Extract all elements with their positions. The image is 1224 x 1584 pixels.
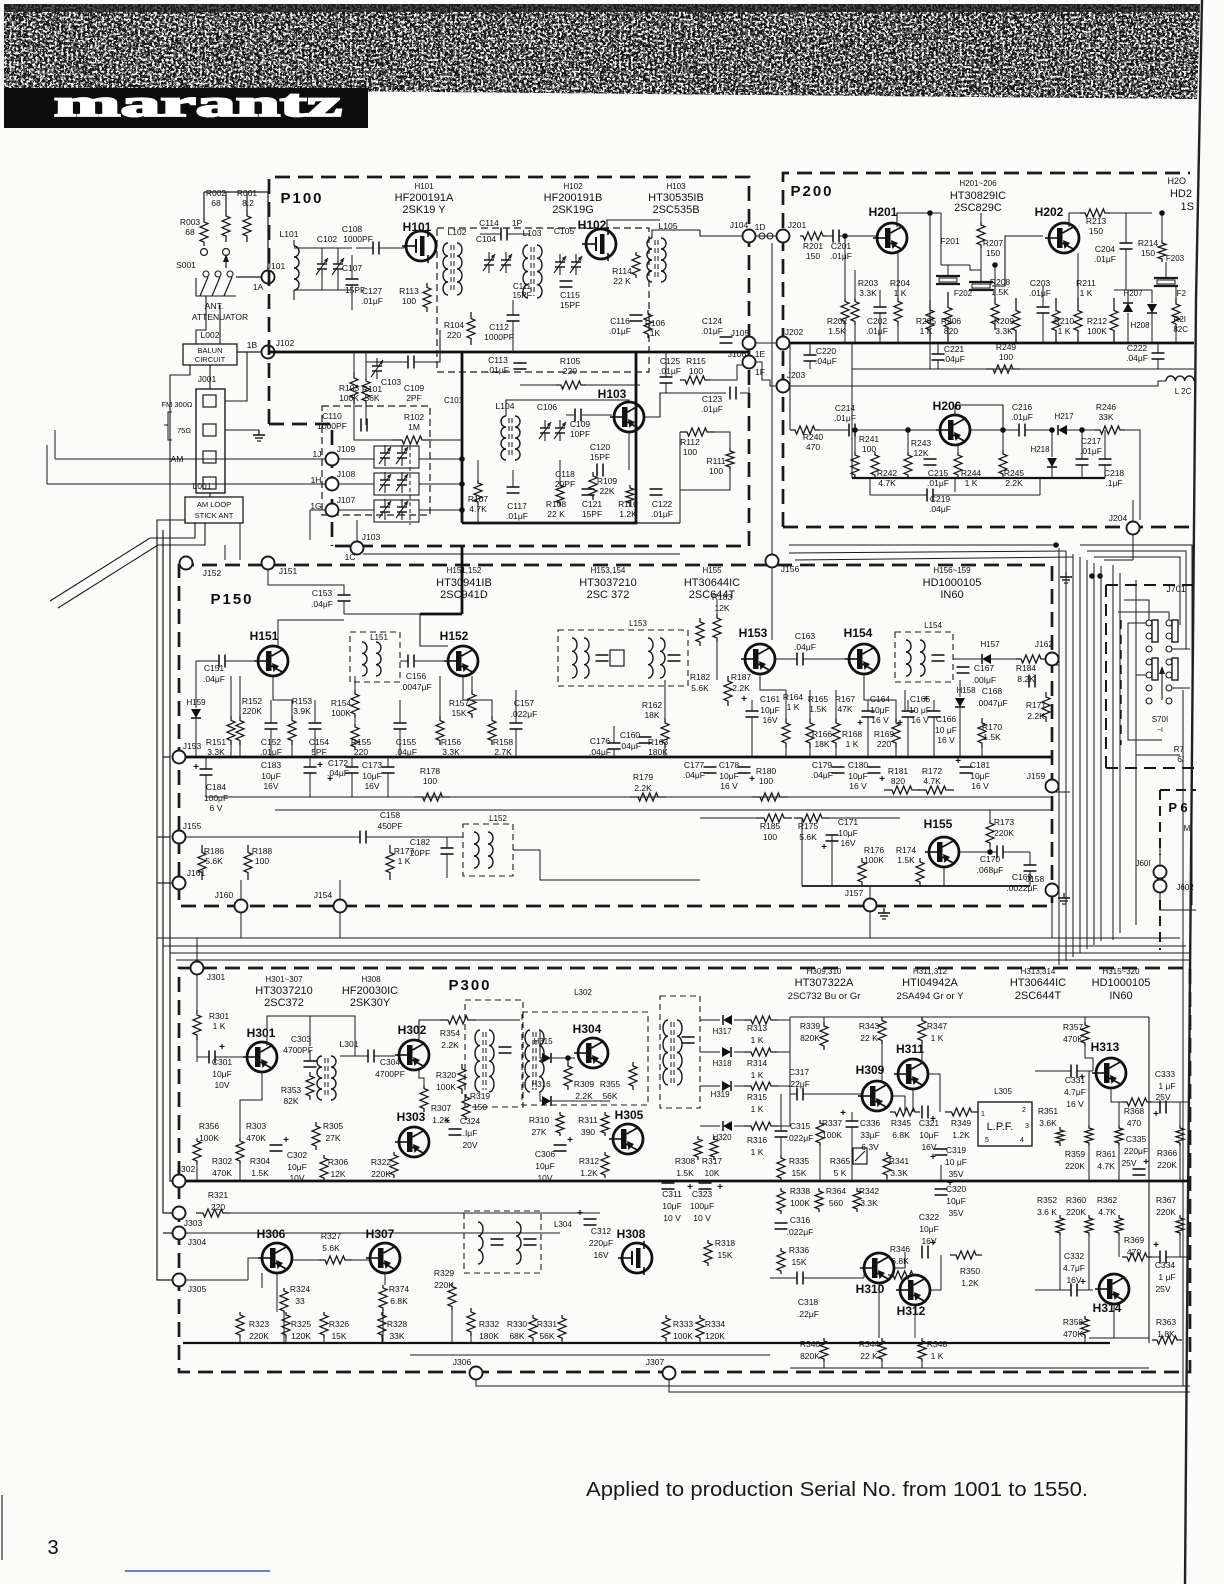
svg-text:F2: F2	[1177, 289, 1187, 298]
svg-text:R329: R329	[434, 1268, 455, 1278]
svg-text:22K: 22K	[599, 486, 614, 496]
svg-text:R175: R175	[798, 821, 819, 831]
inner bundle verticals	[1112, 565, 1114, 940]
svg-text:J108: J108	[337, 469, 356, 479]
right column vertical bundle	[1058, 548, 1060, 965]
svg-text:10μF: 10μF	[535, 1161, 555, 1171]
svg-text:P100: P100	[280, 190, 323, 207]
svg-text:16V: 16V	[364, 781, 379, 791]
svg-text:C201: C201	[831, 241, 852, 251]
svg-text:100μF: 100μF	[690, 1201, 714, 1211]
jack J102 (1B)	[262, 346, 275, 359]
svg-text:HT30829IC: HT30829IC	[950, 190, 1006, 202]
svg-text:C125: C125	[660, 356, 681, 366]
svg-text:15PF: 15PF	[560, 300, 580, 310]
svg-text:18K: 18K	[644, 710, 659, 720]
jack J307	[663, 1367, 676, 1380]
dashed box J701	[1105, 585, 1107, 768]
svg-text:.00IμF: .00IμF	[972, 675, 996, 685]
svg-text:Applied to production Serial N: Applied to production Serial No. from 10…	[586, 1479, 1088, 1501]
svg-text:4.7K: 4.7K	[878, 478, 896, 488]
svg-text:10V: 10V	[289, 1173, 304, 1183]
svg-text:470: 470	[806, 442, 820, 452]
svg-text:L304: L304	[554, 1220, 572, 1229]
svg-text:1E: 1E	[755, 349, 766, 359]
svg-text:56K: 56K	[602, 1091, 617, 1101]
svg-text:R103: R103	[339, 383, 360, 393]
svg-text:R352: R352	[1037, 1195, 1058, 1205]
svg-text:+: +	[1079, 1072, 1085, 1083]
svg-text:.04μF: .04μF	[395, 747, 417, 757]
svg-text:C312: C312	[591, 1226, 612, 1236]
switch S701 contact circles	[1146, 620, 1152, 626]
wire J103 out	[363, 553, 680, 555]
svg-text:C173: C173	[362, 760, 383, 770]
svg-text:R184: R184	[1016, 663, 1037, 673]
svg-text:C203: C203	[1030, 278, 1051, 288]
dashed box L303 right	[522, 1012, 648, 1105]
svg-text:33: 33	[295, 1296, 305, 1306]
svg-text:100K: 100K	[1087, 326, 1107, 336]
svg-text:C121: C121	[582, 499, 603, 509]
svg-text:C110: C110	[322, 411, 342, 421]
svg-text:C117: C117	[507, 501, 527, 511]
photo noise band (page header)	[4, 4, 1200, 99]
svg-text:3.3K: 3.3K	[995, 326, 1013, 336]
svg-text:R307: R307	[431, 1103, 452, 1113]
svg-text:.04μF: .04μF	[815, 356, 837, 366]
svg-text:J602: J602	[1176, 883, 1194, 892]
svg-text:15PF: 15PF	[512, 291, 531, 300]
svg-text:20PF: 20PF	[555, 479, 575, 489]
svg-text:1 K: 1 K	[751, 1070, 764, 1080]
svg-text:L154: L154	[924, 621, 942, 630]
svg-text:H201: H201	[869, 205, 898, 219]
svg-text:C101: C101	[444, 396, 464, 405]
ant attenuator switch	[203, 271, 209, 277]
svg-text:R374: R374	[389, 1284, 410, 1294]
svg-text:R361: R361	[1096, 1149, 1117, 1159]
jack J201	[777, 230, 790, 243]
svg-text:10V: 10V	[537, 1173, 552, 1183]
svg-text:C202: C202	[867, 316, 888, 326]
svg-text:10 V: 10 V	[693, 1213, 711, 1223]
svg-text:.01μF: .01μF	[1080, 446, 1102, 456]
svg-text:J104: J104	[730, 220, 749, 230]
svg-text:R360: R360	[1066, 1195, 1087, 1205]
bracket FM/75	[168, 412, 172, 440]
inner dashed box tuner sections	[437, 228, 649, 372]
svg-text:68K: 68K	[509, 1331, 524, 1341]
svg-text:C332: C332	[1064, 1251, 1085, 1261]
svg-text:6 V: 6 V	[210, 803, 223, 813]
svg-text:L301: L301	[340, 1039, 359, 1049]
svg-text:C183: C183	[261, 760, 282, 770]
svg-text:C109: C109	[404, 383, 425, 393]
svg-text:C181: C181	[970, 760, 991, 770]
capacitor C107 15PF	[346, 278, 359, 280]
wires H306/H307 area	[248, 1258, 258, 1280]
svg-text:+: +	[955, 756, 961, 767]
resistor R215 820 (cut)	[1172, 298, 1180, 330]
svg-text:10μF: 10μF	[970, 771, 990, 781]
resistor R003	[200, 218, 208, 246]
left wire branches to P150 jacks	[163, 756, 170, 758]
svg-text:H306: H306	[257, 1227, 286, 1241]
heavy bottom link	[462, 352, 636, 523]
svg-text:220μF: 220μF	[589, 1238, 613, 1248]
long wire J203 out	[789, 385, 1150, 387]
top rail P300 right	[790, 1016, 1149, 1018]
marantz logo block	[4, 83, 368, 128]
svg-text:L153: L153	[629, 619, 647, 628]
svg-text:1.2K: 1.2K	[432, 1115, 450, 1125]
svg-text:R158: R158	[493, 737, 514, 747]
svg-text:220K: 220K	[371, 1169, 391, 1179]
svg-text:R349: R349	[951, 1118, 972, 1128]
svg-text:10K: 10K	[704, 1168, 719, 1178]
svg-text:R318: R318	[715, 1238, 736, 1248]
svg-text:R187: R187	[731, 672, 752, 682]
svg-text:C154: C154	[309, 737, 330, 747]
svg-text:R354: R354	[440, 1028, 461, 1038]
svg-text:H206: H206	[933, 399, 962, 413]
svg-text:1.2K: 1.2K	[619, 509, 637, 519]
svg-text:R166: R166	[812, 729, 833, 739]
svg-text:.1μF: .1μF	[1105, 478, 1122, 488]
svg-text:BALUN: BALUN	[197, 346, 222, 355]
svg-text:C106: C106	[537, 402, 558, 412]
svg-text:R302: R302	[212, 1156, 233, 1166]
svg-text:1J: 1J	[313, 449, 322, 459]
long left vertical wire A	[157, 536, 172, 1280]
svg-text:22 K: 22 K	[860, 1351, 878, 1361]
svg-text:M: M	[1184, 824, 1191, 833]
wires diode rows	[700, 1019, 720, 1021]
svg-text:R180: R180	[756, 766, 777, 776]
svg-text:R364: R364	[826, 1186, 847, 1196]
svg-text:R340: R340	[800, 1339, 821, 1349]
svg-text:P200: P200	[790, 183, 833, 200]
svg-text:1 μF: 1 μF	[1158, 1272, 1175, 1282]
svg-text:C221: C221	[944, 344, 965, 354]
svg-text:1 K: 1 K	[894, 288, 907, 298]
svg-text:220: 220	[354, 747, 368, 757]
svg-text:8.2K: 8.2K	[1017, 674, 1035, 684]
svg-text:10μF: 10μF	[848, 771, 868, 781]
svg-text:CIRCUIT: CIRCUIT	[195, 355, 226, 364]
capacitor C201 .01uF	[832, 230, 834, 243]
svg-text:C116: C116	[610, 316, 630, 326]
svg-text:1 K: 1 K	[751, 1147, 764, 1157]
wires H103 area	[506, 400, 629, 416]
dashed box L151	[350, 632, 400, 682]
svg-text:H319: H319	[710, 1090, 730, 1099]
dashed box L152	[463, 824, 513, 876]
svg-text:.01μF: .01μF	[1029, 288, 1051, 298]
svg-text:R165: R165	[808, 694, 829, 704]
svg-text:C112: C112	[489, 322, 509, 332]
svg-text:R155: R155	[351, 737, 372, 747]
jack J602	[1154, 880, 1167, 893]
svg-text:C166: C166	[936, 714, 957, 724]
svg-text:C220: C220	[816, 346, 837, 356]
svg-text:18K: 18K	[814, 739, 829, 749]
svg-text:R341: R341	[889, 1156, 910, 1166]
svg-text:R315: R315	[747, 1092, 768, 1102]
svg-text:.01μF: .01μF	[659, 366, 681, 376]
svg-text:R353: R353	[281, 1085, 302, 1095]
svg-text:R176: R176	[864, 845, 885, 855]
jack J156	[766, 555, 779, 568]
svg-text:R328: R328	[387, 1319, 408, 1329]
svg-text:+: +	[219, 1042, 225, 1053]
svg-text:10μF: 10μF	[362, 771, 382, 781]
svg-text:560: 560	[829, 1198, 843, 1208]
svg-text:C323: C323	[692, 1189, 713, 1199]
svg-text:R241: R241	[859, 434, 880, 444]
svg-text:1000PF: 1000PF	[317, 421, 347, 431]
svg-text:R104: R104	[444, 320, 465, 330]
svg-text:2SK30Y: 2SK30Y	[350, 997, 391, 1009]
svg-text:4.7μF: 4.7μF	[1064, 1087, 1086, 1097]
svg-text:H157: H157	[980, 640, 1000, 649]
svg-text:C151: C151	[204, 663, 225, 673]
svg-text:10V: 10V	[214, 1080, 229, 1090]
wires right top	[1148, 1017, 1150, 1343]
svg-text:C118: C118	[555, 469, 575, 479]
svg-text:C218: C218	[1104, 468, 1125, 478]
svg-text:H317: H317	[712, 1027, 732, 1036]
svg-text:3.6K: 3.6K	[1039, 1118, 1057, 1128]
svg-text:H158: H158	[956, 686, 976, 695]
svg-text:H217: H217	[1054, 412, 1074, 421]
svg-text:.0047μF: .0047μF	[976, 698, 1007, 708]
svg-text:J107: J107	[337, 495, 356, 505]
svg-text:1.2K: 1.2K	[580, 1168, 598, 1178]
svg-text:820K: 820K	[800, 1033, 820, 1043]
svg-text:1 K: 1 K	[931, 1033, 944, 1043]
svg-text:C172: C172	[328, 758, 349, 768]
svg-text:J304: J304	[188, 1237, 207, 1247]
svg-text:+: +	[317, 760, 323, 771]
svg-text:J153: J153	[183, 741, 202, 751]
dashed box L154	[895, 632, 953, 682]
svg-text:100K: 100K	[673, 1331, 693, 1341]
svg-text:.01μF: .01μF	[830, 251, 852, 261]
svg-text:.01μF: .01μF	[701, 404, 723, 414]
svg-text:R303: R303	[246, 1121, 267, 1131]
svg-text:R314: R314	[747, 1058, 768, 1068]
svg-text:J102: J102	[276, 338, 295, 348]
svg-text:1.5K: 1.5K	[991, 287, 1009, 297]
svg-text:R181: R181	[888, 766, 909, 776]
svg-text:10μF: 10μF	[946, 1196, 966, 1206]
svg-text:J307: J307	[646, 1357, 665, 1367]
jack J101 (1A)	[262, 271, 275, 284]
svg-text:100K: 100K	[339, 393, 359, 403]
svg-text:3.3K: 3.3K	[859, 288, 877, 298]
svg-text:R366: R366	[1157, 1148, 1178, 1158]
wire connector to balun	[209, 365, 211, 389]
long left vertical wire B	[163, 530, 172, 1213]
heavy vertical into P150	[461, 546, 464, 614]
AM loop stick ant box	[185, 497, 243, 523]
svg-text:1M: 1M	[408, 422, 420, 432]
svg-text:16V: 16V	[593, 1250, 608, 1260]
svg-text:15K: 15K	[451, 708, 466, 718]
svg-text:R319: R319	[470, 1091, 491, 1101]
svg-text:R177: R177	[394, 846, 415, 856]
svg-text:R108: R108	[546, 499, 567, 509]
svg-text:R179: R179	[633, 772, 654, 782]
svg-text:+: +	[283, 1135, 289, 1146]
svg-text:C168: C168	[982, 686, 1003, 696]
svg-text:5: 5	[985, 1137, 989, 1144]
svg-text:R306: R306	[328, 1157, 349, 1167]
svg-text:3.3K: 3.3K	[442, 747, 460, 757]
jack J202	[777, 337, 790, 350]
svg-text:1.5K: 1.5K	[983, 732, 1001, 742]
svg-text:820K: 820K	[800, 1351, 820, 1361]
svg-text:HT30941IB: HT30941IB	[436, 577, 492, 589]
svg-text:.022μF: .022μF	[511, 709, 538, 719]
svg-text:R246: R246	[1096, 402, 1117, 412]
svg-text:R344: R344	[859, 1339, 880, 1349]
svg-text:R102: R102	[404, 412, 425, 422]
svg-text:+: +	[193, 762, 199, 773]
svg-text:H155: H155	[702, 566, 722, 575]
jack J152	[180, 557, 193, 570]
jack J157	[864, 899, 877, 912]
svg-text:120K: 120K	[291, 1331, 311, 1341]
svg-text:5PF: 5PF	[311, 747, 327, 757]
jack J204	[1127, 522, 1140, 535]
svg-text:15K: 15K	[791, 1257, 806, 1267]
svg-text:R351: R351	[1038, 1106, 1059, 1116]
jack J104 (1D)	[743, 230, 756, 243]
jack J158	[1046, 884, 1059, 897]
svg-text:+: +	[567, 1135, 573, 1146]
svg-text:IN60: IN60	[940, 589, 963, 601]
svg-text:R342: R342	[859, 1186, 880, 1196]
P300 bottom rail	[183, 1342, 1110, 1344]
svg-text:470K: 470K	[212, 1168, 232, 1178]
bottom rail H155	[802, 885, 1030, 887]
svg-text:R112: R112	[680, 437, 700, 447]
svg-text:100μF: 100μF	[204, 793, 228, 803]
svg-text:100: 100	[255, 856, 269, 866]
svg-text:820: 820	[891, 776, 905, 786]
svg-text:H103: H103	[666, 182, 686, 191]
svg-text:R168: R168	[842, 729, 863, 739]
svg-text:4700PF: 4700PF	[375, 1069, 405, 1079]
svg-text:R206: R206	[941, 316, 962, 326]
svg-text:.0022μF: .0022μF	[1006, 883, 1037, 893]
svg-text:STICK ANT: STICK ANT	[195, 511, 234, 520]
svg-text:R113: R113	[399, 286, 419, 296]
svg-text:C124: C124	[702, 316, 723, 326]
svg-text:J301: J301	[207, 972, 226, 982]
svg-text:2PF: 2PF	[406, 393, 422, 403]
switch bars	[1152, 620, 1158, 642]
svg-text:.0047μF: .0047μF	[400, 682, 431, 692]
wire connector AM feeds	[225, 352, 247, 401]
wire L152 out	[513, 850, 700, 880]
svg-text:220: 220	[563, 366, 577, 376]
svg-text:.04μF: .04μF	[683, 770, 705, 780]
svg-text:R106: R106	[645, 318, 666, 328]
wires gang rows	[339, 458, 374, 460]
svg-text:10μF: 10μF	[719, 771, 739, 781]
svg-text:J306: J306	[453, 1357, 472, 1367]
svg-text:+: +	[857, 718, 863, 729]
svg-text:R182: R182	[690, 672, 711, 682]
svg-text:H307: H307	[366, 1227, 395, 1241]
svg-text:10μF: 10μF	[662, 1201, 682, 1211]
svg-text:P 6: P 6	[1168, 800, 1187, 815]
svg-text:H308: H308	[617, 1227, 646, 1241]
svg-text:R188: R188	[252, 846, 273, 856]
svg-text:R212: R212	[1087, 316, 1108, 326]
svg-text:56K: 56K	[364, 393, 379, 403]
svg-text:R151: R151	[206, 737, 227, 747]
svg-text:3: 3	[1025, 1123, 1029, 1130]
svg-text:HD1000105: HD1000105	[1092, 977, 1151, 989]
svg-text:H315: H315	[533, 1037, 553, 1046]
svg-text:1A: 1A	[253, 282, 264, 292]
svg-text:1.5K: 1.5K	[676, 1168, 694, 1178]
balun circuit box	[183, 344, 237, 365]
svg-text:C319: C319	[946, 1145, 967, 1155]
svg-text:H316: H316	[531, 1080, 551, 1089]
svg-text:HTI04942A: HTI04942A	[902, 977, 958, 989]
svg-text:H305: H305	[615, 1108, 644, 1122]
svg-text:25V: 25V	[1155, 1092, 1170, 1102]
svg-text:12K: 12K	[330, 1169, 345, 1179]
svg-text:2.2K: 2.2K	[634, 783, 652, 793]
svg-text:C155: C155	[396, 737, 417, 747]
svg-text:H2O: H2O	[1167, 176, 1186, 186]
svg-text:1D: 1D	[755, 222, 766, 232]
svg-text:2SC 372: 2SC 372	[587, 589, 630, 601]
svg-text:R201: R201	[803, 241, 824, 251]
P150 dashed border	[179, 565, 1052, 906]
svg-text:FM 300Ω: FM 300Ω	[161, 400, 192, 409]
svg-text:L302: L302	[574, 988, 592, 997]
wire R00x top bus	[204, 191, 268, 193]
svg-text:~I: ~I	[1157, 727, 1163, 734]
svg-text:100K: 100K	[199, 1133, 219, 1143]
bundle top horizontals	[789, 544, 1059, 546]
svg-text:150: 150	[1141, 248, 1155, 258]
svg-text:C160: C160	[620, 730, 641, 740]
svg-text:J201: J201	[788, 220, 807, 230]
svg-text:C120: C120	[590, 442, 611, 452]
svg-text:R003: R003	[180, 217, 201, 227]
svg-text:.04μF: .04μF	[943, 354, 965, 364]
bundle left verticals	[156, 938, 158, 1280]
coil L20x (cut)	[1166, 376, 1194, 381]
svg-text:1 K: 1 K	[1080, 288, 1093, 298]
svg-text:R368: R368	[1124, 1106, 1145, 1116]
svg-text:35V: 35V	[948, 1208, 963, 1218]
svg-text:+: +	[930, 1114, 936, 1125]
svg-text:1S: 1S	[1181, 201, 1194, 213]
svg-text:2SC941D: 2SC941D	[440, 589, 488, 601]
jack J306	[470, 1367, 483, 1380]
svg-text:1.5K: 1.5K	[251, 1168, 269, 1178]
